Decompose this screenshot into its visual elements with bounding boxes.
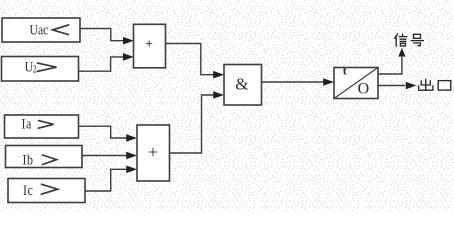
- svg-text:Ib: Ib: [23, 151, 34, 168]
- svg-text:Ia: Ia: [22, 115, 32, 132]
- svg-text:Ic: Ic: [23, 182, 33, 199]
- svg-text:Uac: Uac: [30, 21, 49, 38]
- svg-text:2: 2: [33, 64, 37, 75]
- svg-text:O: O: [358, 80, 370, 97]
- svg-text:&: &: [235, 75, 248, 94]
- svg-text:t: t: [343, 64, 347, 78]
